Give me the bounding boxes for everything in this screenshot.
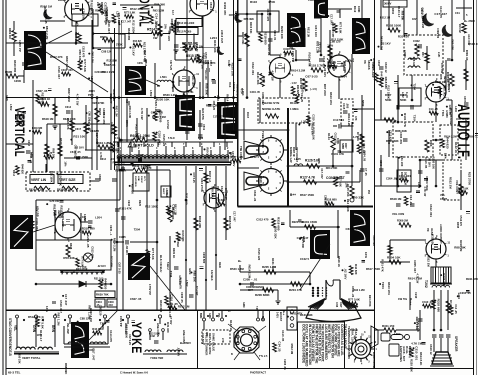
svg-text:R220 10K: R220 10K — [311, 127, 315, 140]
svg-text:NOISE GATE: NOISE GATE — [262, 107, 280, 111]
svg-text:R31 100: R31 100 — [166, 322, 170, 333]
svg-text:C930 .05: C930 .05 — [180, 292, 184, 303]
svg-text:EARPHONES: EARPHONES — [399, 346, 402, 362]
svg-text:T204: T204 — [340, 74, 347, 78]
svg-text:10%: 10% — [444, 153, 448, 159]
svg-text:9+18: 9+18 — [405, 92, 408, 98]
svg-text:L204: L204 — [417, 182, 421, 188]
svg-text:T204: T204 — [413, 83, 417, 90]
svg-text:C210: C210 — [414, 292, 418, 299]
svg-text:QUAD DET: QUAD DET — [447, 78, 451, 92]
svg-text:4.7K: 4.7K — [99, 152, 103, 158]
svg-text:C512 470: C512 470 — [256, 218, 269, 222]
svg-text:C611 .22: C611 .22 — [351, 286, 355, 298]
svg-text:R910 1M: R910 1M — [267, 44, 271, 56]
svg-text:4.7K: 4.7K — [317, 158, 321, 164]
svg-text:R12 150K: R12 150K — [149, 333, 160, 336]
svg-text:C934 500: C934 500 — [202, 252, 206, 264]
svg-text:R613 10%: R613 10% — [387, 282, 391, 296]
svg-text:C512 470: C512 470 — [102, 112, 106, 124]
svg-text:C204 .05: C204 .05 — [448, 105, 451, 116]
svg-text:S BLK: S BLK — [165, 190, 168, 198]
svg-text:1W: 1W — [153, 36, 158, 40]
svg-text:C17 .047: C17 .047 — [92, 348, 96, 361]
svg-text:C302 22: C302 22 — [436, 28, 440, 39]
svg-text:- 1.5V: - 1.5V — [290, 82, 297, 85]
svg-text:R101 47K: R101 47K — [119, 207, 132, 211]
svg-text:R220 10K: R220 10K — [156, 97, 170, 101]
svg-text:C17 .047: C17 .047 — [297, 236, 309, 240]
svg-text:C515 120: C515 120 — [162, 134, 166, 147]
svg-text:R614 2.2M: R614 2.2M — [408, 277, 423, 281]
svg-text:C608: C608 — [98, 174, 102, 181]
svg-text:R88 39K: R88 39K — [204, 83, 208, 96]
svg-text:-460V: -460V — [88, 89, 95, 93]
svg-text:B++: B++ — [290, 193, 296, 197]
svg-text:R512 1M: R512 1M — [290, 344, 294, 355]
svg-text:R610 680: R610 680 — [127, 28, 131, 41]
svg-text:MKT 2218: MKT 2218 — [323, 84, 326, 96]
svg-text:R121 39K: R121 39K — [256, 72, 260, 85]
svg-text:R911 470K: R911 470K — [466, 277, 478, 281]
svg-text:150V PP: 150V PP — [291, 51, 295, 62]
svg-text:C67 5-25: C67 5-25 — [192, 172, 195, 183]
svg-text:CONVERGENCE: CONVERGENCE — [246, 287, 264, 289]
svg-text:C67 5-25: C67 5-25 — [318, 42, 321, 53]
svg-text:10%: 10% — [345, 183, 348, 189]
svg-text:4.7K 1W: 4.7K 1W — [49, 200, 59, 203]
svg-text:R318 680: R318 680 — [158, 110, 162, 123]
svg-text:R614 2.2M: R614 2.2M — [347, 114, 351, 128]
svg-text:R88 39K: R88 39K — [154, 2, 165, 6]
svg-text:C67 5-25: C67 5-25 — [118, 262, 122, 274]
svg-text:R101 47K: R101 47K — [381, 259, 385, 272]
svg-text:CKT: CKT — [248, 290, 253, 292]
svg-text:10%: 10% — [164, 24, 167, 30]
svg-text:4.7K 1W: 4.7K 1W — [411, 341, 423, 345]
svg-text:R23 270K: R23 270K — [92, 101, 105, 105]
svg-text:R614 2.2M: R614 2.2M — [45, 26, 49, 40]
svg-text:R220 10K: R220 10K — [60, 205, 64, 219]
svg-text:R88 39K: R88 39K — [395, 129, 408, 133]
svg-text:C512 470: C512 470 — [266, 9, 270, 22]
svg-text:R12 150K: R12 150K — [387, 85, 391, 99]
svg-text:9-5 PLK: 9-5 PLK — [166, 120, 169, 130]
svg-text:R115 33K: R115 33K — [241, 32, 245, 44]
svg-text:R917 1.2: R917 1.2 — [208, 171, 212, 182]
svg-text:R918 5.6K: R918 5.6K — [228, 216, 232, 229]
svg-text:R77 5.6K: R77 5.6K — [81, 257, 84, 267]
svg-text:V13: V13 — [228, 82, 232, 88]
svg-text:R31 100: R31 100 — [184, 193, 188, 205]
svg-text:C117 10: C117 10 — [333, 118, 345, 122]
svg-text:RED: RED — [218, 262, 222, 268]
svg-text:50/60C: 50/60C — [140, 176, 142, 183]
svg-text:C613: C613 — [27, 140, 30, 147]
svg-text:R44 820: R44 820 — [104, 278, 108, 289]
svg-text:B+ 260V: B+ 260V — [464, 19, 475, 23]
svg-text:4.7K 1W: 4.7K 1W — [440, 63, 444, 74]
svg-text:LYD: LYD — [221, 338, 224, 343]
svg-text:GND: GND — [5, 95, 9, 101]
svg-text:RED: RED — [261, 316, 264, 321]
svg-text:R124: R124 — [327, 133, 331, 140]
svg-text:R639 76K: R639 76K — [96, 293, 109, 297]
svg-text:5 BLU: 5 BLU — [166, 262, 170, 270]
svg-text:C17 .047: C17 .047 — [121, 20, 131, 23]
svg-text:.003: .003 — [108, 304, 113, 307]
svg-text:R23 270K: R23 270K — [76, 267, 88, 271]
svg-text:PHOTOFACT: PHOTOFACT — [250, 371, 266, 375]
svg-text:VOL CON: VOL CON — [392, 212, 404, 216]
svg-text:C88 120: C88 120 — [88, 111, 92, 121]
svg-text:100K: 100K — [357, 6, 361, 12]
svg-text:.02 1KV: .02 1KV — [131, 46, 135, 56]
svg-text:R614 8.2K: R614 8.2K — [365, 30, 369, 43]
svg-text:R617 150K: R617 150K — [366, 267, 380, 271]
svg-text:C88 120: C88 120 — [80, 317, 91, 321]
svg-text:C302: C302 — [413, 39, 420, 43]
svg-text:L204: L204 — [90, 76, 93, 82]
svg-text:C512 470: C512 470 — [459, 215, 462, 226]
svg-text:C616 .02: C616 .02 — [87, 120, 91, 131]
svg-text:R610 680: R610 680 — [13, 60, 17, 73]
svg-text:C14 .25: C14 .25 — [155, 13, 159, 24]
svg-text:R512 1M: R512 1M — [380, 17, 390, 20]
svg-text:R127 4.7K: R127 4.7K — [300, 176, 316, 180]
svg-text:L204: L204 — [454, 106, 457, 112]
svg-text:R50 33K: R50 33K — [63, 256, 75, 260]
svg-text:R302: R302 — [391, 8, 394, 15]
svg-text:R93 1.2M: R93 1.2M — [143, 51, 146, 62]
svg-text:R101 47K: R101 47K — [89, 3, 93, 15]
svg-text:.02 1KV: .02 1KV — [232, 155, 236, 167]
svg-text:+400V: +400V — [308, 0, 317, 2]
svg-text:0.17: 0.17 — [171, 10, 174, 15]
svg-text:R613 10%: R613 10% — [329, 92, 333, 106]
svg-text:B: B — [231, 353, 233, 356]
svg-text:L302: L302 — [401, 92, 404, 98]
svg-text:R31 100: R31 100 — [314, 25, 318, 37]
svg-text:R220 10K: R220 10K — [410, 359, 414, 373]
svg-text:S88B: S88B — [341, 143, 344, 149]
svg-text:470K: 470K — [268, 0, 276, 4]
svg-text:C512 470: C512 470 — [91, 246, 95, 258]
svg-text:17BF3: 17BF3 — [232, 82, 236, 91]
svg-text:R31 100: R31 100 — [191, 76, 194, 86]
svg-text:R616 1K: R616 1K — [59, 138, 63, 149]
svg-text:18GK6: 18GK6 — [367, 60, 371, 70]
svg-text:C510 X1: C510 X1 — [209, 2, 212, 12]
svg-text:10%: 10% — [327, 44, 333, 48]
svg-text:R617 150K: R617 150K — [300, 193, 314, 197]
svg-text:C307: C307 — [463, 96, 466, 103]
svg-text:R614 2.2M: R614 2.2M — [113, 238, 117, 252]
svg-text:175V PP: 175V PP — [148, 284, 152, 295]
svg-text:C204 .05: C204 .05 — [363, 150, 367, 161]
svg-text:R605: R605 — [5, 70, 13, 74]
svg-text:C88 120: C88 120 — [412, 57, 416, 67]
svg-text:R101 10K: R101 10K — [271, 258, 275, 271]
svg-text:R23 270K: R23 270K — [326, 166, 338, 170]
svg-text:C88 120: C88 120 — [101, 49, 112, 53]
svg-text:R606: R606 — [100, 35, 107, 39]
svg-text:R50 33K: R50 33K — [206, 147, 210, 158]
svg-text:R916 22K: R916 22K — [198, 216, 202, 228]
svg-text:C111 .01: C111 .01 — [273, 30, 277, 41]
svg-text:R612: R612 — [100, 158, 107, 161]
svg-text:CONT: CONT — [440, 198, 448, 201]
svg-text:T.P.: T.P. — [255, 306, 258, 310]
svg-text:C607 .05: C607 .05 — [104, 63, 116, 67]
svg-text:R101 47K: R101 47K — [308, 52, 312, 67]
svg-text:TO CRT: TO CRT — [195, 286, 199, 296]
svg-text:EARPHONE: EARPHONE — [372, 352, 376, 369]
svg-text:R614 2.2M: R614 2.2M — [247, 265, 251, 279]
svg-text:C905 .047: C905 .047 — [261, 92, 265, 105]
svg-text:.02 1KV: .02 1KV — [323, 68, 327, 78]
svg-text:900: 900 — [205, 332, 209, 337]
svg-text:TRATED ABOVE.: TRATED ABOVE. — [343, 324, 347, 350]
svg-text:C36: C36 — [335, 302, 339, 308]
svg-text:R12 150K: R12 150K — [145, 205, 159, 209]
svg-text:R308: R308 — [456, 222, 459, 229]
svg-text:R77 5.6K: R77 5.6K — [116, 142, 120, 154]
svg-text:R44 820: R44 820 — [92, 327, 103, 331]
svg-text:IN ALL: IN ALL — [405, 346, 408, 354]
svg-text:R101 47K: R101 47K — [290, 312, 303, 316]
svg-text:R31 100: R31 100 — [170, 19, 174, 29]
svg-text:R512 1M: R512 1M — [90, 52, 94, 64]
svg-text:R77 5.6K: R77 5.6K — [41, 316, 45, 330]
svg-text:1X2 BLK: 1X2 BLK — [210, 270, 214, 281]
svg-text:R512 1M: R512 1M — [178, 304, 190, 308]
svg-text:R31 100: R31 100 — [400, 156, 404, 167]
svg-text:C14 .25: C14 .25 — [188, 42, 192, 52]
svg-text:.02 1KV: .02 1KV — [167, 30, 171, 41]
svg-text:C67 5-25: C67 5-25 — [74, 145, 78, 157]
svg-text:C310 .001: C310 .001 — [61, 69, 73, 72]
svg-text:SAME VALUE: SAME VALUE — [212, 333, 216, 351]
svg-text:BRN: BRN — [51, 325, 55, 333]
svg-text:T204: T204 — [30, 152, 34, 158]
svg-text:C88 120: C88 120 — [99, 305, 103, 316]
svg-text:C204 .05: C204 .05 — [168, 306, 172, 317]
svg-text:R602 27K: R602 27K — [110, 122, 114, 135]
svg-text:R602 1M: R602 1M — [8, 28, 12, 39]
svg-text:R88 39K: R88 39K — [372, 58, 376, 71]
svg-text:R118: R118 — [246, 112, 249, 118]
svg-text:R31 100: R31 100 — [73, 135, 85, 139]
svg-text:R318 680: R318 680 — [264, 32, 268, 45]
svg-text:C614: C614 — [65, 106, 72, 109]
svg-text:C102 5: C102 5 — [250, 155, 259, 159]
svg-text:T10A & T60: T10A & T60 — [354, 328, 358, 345]
svg-text:R122 1K: R122 1K — [454, 142, 458, 153]
svg-text:175V PP: 175V PP — [18, 40, 22, 52]
svg-text:R23 270K: R23 270K — [368, 295, 372, 307]
svg-text:T204: T204 — [413, 115, 417, 122]
svg-text:T204: T204 — [381, 282, 385, 289]
svg-text:R920: R920 — [138, 200, 141, 207]
svg-text:R304 10K: R304 10K — [387, 256, 401, 260]
svg-text:C611 .22: C611 .22 — [253, 190, 257, 202]
svg-text:C67 5-25: C67 5-25 — [456, 117, 469, 121]
svg-text:300 V: 300 V — [384, 2, 391, 6]
svg-text:10%: 10% — [45, 306, 49, 312]
svg-text:C17 .047: C17 .047 — [64, 294, 68, 306]
svg-text:C204 .05: C204 .05 — [386, 177, 397, 181]
svg-text:60V PP: 60V PP — [35, 206, 39, 218]
svg-text:C14 .25: C14 .25 — [171, 204, 175, 215]
svg-text:R638: R638 — [69, 243, 73, 250]
svg-text:VERT HOLD: VERT HOLD — [133, 144, 154, 148]
svg-text:R31 100: R31 100 — [94, 278, 104, 281]
svg-text:R44 820: R44 820 — [176, 22, 180, 33]
svg-text:R220 10K: R220 10K — [442, 273, 446, 287]
svg-text:R301 1K: R301 1K — [465, 50, 469, 61]
svg-text:TTL 2.5: TTL 2.5 — [259, 355, 268, 358]
svg-text:C114 270: C114 270 — [109, 330, 113, 342]
svg-text:8 4N: 8 4N — [198, 137, 203, 140]
svg-text:1 MEG: 1 MEG — [290, 107, 299, 111]
svg-text:C204 .05: C204 .05 — [283, 359, 287, 370]
svg-text:R911 470K: R911 470K — [292, 27, 306, 31]
svg-text:C518: C518 — [189, 119, 192, 126]
svg-text:LYD CONN: LYD CONN — [236, 330, 240, 343]
svg-text:STAG CONVERGENCE-B: STAG CONVERGENCE-B — [8, 318, 12, 357]
svg-text:R512 47K: R512 47K — [28, 315, 41, 319]
svg-text:R123 4.7: R123 4.7 — [397, 6, 401, 18]
svg-text:R512 1M: R512 1M — [53, 204, 57, 216]
svg-text:B+ 260V: B+ 260V — [227, 131, 237, 134]
svg-text:L204: L204 — [241, 89, 245, 96]
svg-text:YEL: YEL — [13, 325, 17, 331]
svg-text:V6: V6 — [363, 60, 367, 64]
svg-text:C512 470: C512 470 — [334, 133, 337, 144]
svg-text:L204: L204 — [457, 293, 461, 300]
svg-text:(JACK - NOT: (JACK - NOT — [402, 346, 405, 362]
svg-text:C933: C933 — [127, 200, 130, 207]
svg-text:C102 5: C102 5 — [300, 257, 309, 261]
svg-text:C17 .047: C17 .047 — [320, 168, 324, 179]
svg-text:VERT LIN: VERT LIN — [31, 178, 47, 182]
svg-text:C17 .047: C17 .047 — [232, 211, 236, 222]
svg-text:V14: V14 — [216, 186, 220, 191]
svg-text:R88 39K: R88 39K — [193, 271, 197, 283]
svg-text:R23 270K: R23 270K — [343, 62, 347, 74]
svg-text:110A, 110E: 110A, 110E — [351, 328, 355, 344]
svg-text:L204: L204 — [210, 36, 217, 40]
svg-text:T204: T204 — [134, 228, 141, 232]
svg-text:T204: T204 — [262, 77, 266, 83]
svg-text:R77 5.6K: R77 5.6K — [124, 11, 135, 15]
svg-text:R610 680: R610 680 — [159, 300, 163, 313]
svg-text:R88 39K: R88 39K — [211, 187, 215, 198]
svg-text:R23 270K: R23 270K — [201, 108, 205, 120]
svg-text:AUDIO OUTPUT: AUDIO OUTPUT — [439, 224, 443, 244]
svg-text:.005: .005 — [346, 103, 350, 109]
svg-text:L204: L204 — [301, 120, 308, 124]
svg-text:31.2V: 31.2V — [227, 60, 230, 67]
svg-text:T204: T204 — [186, 89, 193, 93]
svg-text:C17 .047: C17 .047 — [329, 14, 333, 25]
svg-text:R44 820: R44 820 — [446, 137, 450, 149]
svg-text:C14 .25: C14 .25 — [278, 341, 282, 352]
svg-text:C512 470: C512 470 — [468, 42, 478, 46]
svg-text:C14 .25: C14 .25 — [300, 93, 304, 103]
svg-text:V8: V8 — [439, 76, 443, 80]
svg-text:R12 150K: R12 150K — [135, 124, 139, 138]
svg-text:47K: 47K — [354, 116, 357, 121]
svg-text:R220 10K: R220 10K — [231, 63, 235, 77]
svg-text:4.7K 1W: 4.7K 1W — [140, 108, 144, 120]
svg-text:R614 2.2M: R614 2.2M — [291, 69, 306, 73]
svg-text:C113 .05: C113 .05 — [281, 330, 285, 342]
svg-text:R77 5.6K: R77 5.6K — [151, 248, 155, 260]
svg-text:C512 470: C512 470 — [416, 321, 419, 332]
svg-text:C610 12: C610 12 — [384, 62, 388, 73]
svg-text:R31: R31 — [421, 52, 424, 57]
svg-text:C510 .047: C510 .047 — [59, 300, 63, 313]
svg-text:PART OF: PART OF — [292, 147, 295, 158]
svg-text:C204 .05: C204 .05 — [15, 115, 19, 126]
svg-text:R921 1K: R921 1K — [172, 248, 176, 258]
svg-text:R512 1M: R512 1M — [426, 255, 430, 267]
svg-text:R614: R614 — [12, 170, 15, 177]
svg-text:T202: T202 — [424, 280, 428, 288]
svg-text:R93 1.2M: R93 1.2M — [57, 313, 61, 327]
svg-text:HORIZ DAMPER: HORIZ DAMPER — [236, 84, 240, 106]
svg-text:R93 1.2M: R93 1.2M — [153, 9, 164, 13]
svg-text:BRN: BRN — [199, 313, 202, 318]
svg-text:C617: C617 — [75, 128, 82, 131]
svg-text:C? .05: C? .05 — [364, 168, 367, 176]
svg-text:C204 .05: C204 .05 — [86, 235, 90, 248]
svg-text:10%: 10% — [137, 61, 143, 65]
svg-text:A10 33C: A10 33C — [204, 70, 207, 80]
svg-text:R23 270K: R23 270K — [124, 325, 128, 339]
svg-text:R318 680: R318 680 — [436, 299, 440, 313]
svg-text:C310 .001: C310 .001 — [399, 174, 412, 178]
svg-text:C519: C519 — [202, 124, 205, 131]
svg-text:680K: 680K — [125, 120, 129, 127]
svg-text:R44 820: R44 820 — [296, 85, 299, 95]
svg-text:C935: C935 — [119, 235, 126, 239]
svg-text:R512 47K: R512 47K — [50, 55, 63, 59]
svg-text:3 4B0: 3 4B0 — [222, 137, 229, 140]
svg-text:R50 33K: R50 33K — [274, 227, 278, 240]
svg-text:C612 .001: C612 .001 — [251, 62, 255, 75]
svg-text:VERT TOTAL: VERT TOTAL — [22, 356, 41, 360]
svg-text:1W 5%: 1W 5% — [398, 297, 408, 301]
svg-text:R121 39K: R121 39K — [386, 139, 399, 143]
svg-text:T204: T204 — [169, 271, 173, 278]
svg-text:C17 .047: C17 .047 — [95, 133, 99, 144]
svg-text:4.7K 1W: 4.7K 1W — [192, 44, 203, 48]
svg-text:117V: 117V — [143, 176, 145, 182]
svg-text:4.7K 1W: 4.7K 1W — [423, 187, 426, 197]
svg-text:R44 820: R44 820 — [20, 164, 24, 174]
svg-text:R101 47K: R101 47K — [223, 2, 227, 16]
svg-text:R12 150K: R12 150K — [49, 171, 53, 183]
svg-text:R614 2.2M: R614 2.2M — [128, 106, 131, 118]
svg-text:VEL AMP: VEL AMP — [66, 323, 69, 334]
svg-text:C17 .047: C17 .047 — [434, 12, 447, 16]
svg-text:BOOST: BOOST — [279, 312, 283, 322]
svg-text:C303: C303 — [377, 60, 380, 67]
svg-text:C88 120: C88 120 — [372, 235, 376, 246]
